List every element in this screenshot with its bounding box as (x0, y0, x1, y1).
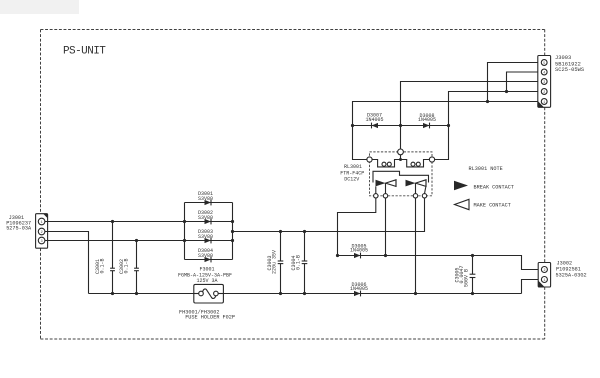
RL3001 contact 1 leads (376, 183, 386, 194)
legend make contact symbol (455, 199, 470, 209)
D3008 label (418, 113, 436, 123)
svg-text:5: 5 (543, 62, 545, 66)
F3001 label (178, 266, 232, 284)
J3001 pin 3 number (41, 240, 43, 244)
RL3001 contact 2 leads (416, 183, 426, 194)
J3002 label (556, 260, 587, 278)
frame bottom border (41, 338, 545, 340)
svg-text:125V 3A: 125V 3A (196, 278, 217, 284)
diode D3002 (185, 219, 233, 225)
D3001 label (198, 191, 213, 202)
D3005 label (350, 244, 368, 254)
wire relay pin C down to neutral rail (415, 198, 417, 294)
diode D3006 (354, 291, 361, 297)
svg-text:1N4005: 1N4005 (365, 117, 383, 123)
svg-text:1N4005: 1N4005 (418, 117, 436, 123)
relay RL3001 dashed outline (370, 152, 433, 196)
wire D3005 line to J3002 pin2 (338, 256, 542, 270)
legend make contact text (474, 203, 511, 209)
J3002 pin 1 number (543, 279, 545, 283)
junction C3001 bottom (111, 292, 114, 295)
title PS-UNIT (63, 46, 106, 58)
svg-text:2: 2 (543, 91, 545, 95)
fuse F3001 (194, 284, 224, 303)
diode D3003 (185, 238, 233, 244)
wire relay pin A to D3005 anode (338, 198, 376, 256)
svg-text:1N4005: 1N4005 (350, 248, 368, 254)
C3005 label (455, 265, 470, 287)
svg-text:PS-UNIT: PS-UNIT (63, 46, 106, 58)
RL3001 contact 2 break (406, 179, 427, 186)
junction ladder right rail D3003 (231, 239, 234, 242)
svg-text:P1092581: P1092581 (556, 266, 581, 272)
diode D3007 (353, 123, 401, 129)
svg-text:J3003: J3003 (555, 55, 571, 61)
junction coil center tap (399, 155, 402, 162)
C3001 label (95, 258, 106, 274)
wire J3003 pin5 branch (488, 63, 542, 102)
svg-text:S3V80: S3V80 (198, 215, 213, 221)
junction pin4 branch on pin2 wire (505, 90, 508, 93)
RL3001 coil pin right (429, 157, 434, 162)
junction D3008 right (447, 124, 450, 127)
C3003 label (267, 250, 278, 274)
D3003 label (198, 229, 213, 240)
svg-text:SC25-05WS: SC25-05WS (555, 67, 584, 73)
svg-text:500V B: 500V B (464, 269, 470, 287)
J3003 pin 4 number (543, 71, 545, 75)
diode ladder right rail (232, 203, 234, 260)
capacitor C3004 (302, 232, 308, 294)
junction C3004 bottom (303, 292, 306, 295)
junction C3002 top (135, 239, 138, 242)
wire neutral rail to J3002 pin1 (522, 280, 542, 294)
RL3001 armature linkage (373, 171, 429, 182)
RL3001 contact pin B (383, 194, 387, 198)
capacitor C3005 (470, 256, 476, 294)
svg-text:1: 1 (543, 101, 545, 105)
svg-text:RL3001 NOTE: RL3001 NOTE (469, 166, 503, 172)
D3006 label (350, 282, 368, 292)
capacitor C3003 (278, 232, 284, 294)
svg-text:220u 35V: 220u 35V (272, 250, 278, 274)
junction D3005 anode corner (336, 254, 339, 257)
J3001 pin 1 number (41, 221, 43, 225)
svg-text:0.1-B: 0.1-B (124, 258, 130, 273)
D3007 label (365, 113, 383, 124)
frame top border (41, 29, 545, 31)
junction C3005 bottom (471, 292, 474, 295)
legend break contact text (474, 184, 514, 190)
wire J3001 pin1 to diode ladder (AC live) (45, 221, 185, 223)
svg-text:DC12V: DC12V (344, 177, 359, 183)
D3004 label (198, 248, 213, 259)
svg-text:MAKE CONTACT: MAKE CONTACT (474, 203, 511, 209)
junction C3004 top (303, 230, 306, 233)
svg-text:2: 2 (41, 231, 43, 235)
J3001 pin 2 number (41, 231, 43, 235)
junction pin C on neutral rail (414, 292, 417, 295)
RL3001 contact 1 break (376, 179, 397, 186)
J3003 pin 1 number (543, 101, 545, 105)
J3003 label (555, 55, 584, 73)
J3002 pin 2 number (543, 269, 545, 273)
junction pin B on D3005 line (384, 254, 387, 257)
junction ladder left rail top wire (183, 220, 186, 223)
neutral rail bottom (89, 293, 522, 295)
junction pin5 branch on pin1 wire (486, 100, 489, 103)
wire J3001 pin2 down to neutral rail (45, 232, 89, 294)
svg-text:1N4005: 1N4005 (350, 286, 368, 292)
connector J3003 (538, 56, 551, 108)
svg-text:BREAK CONTACT: BREAK CONTACT (474, 184, 514, 190)
diode D3008 (401, 123, 449, 129)
capacitor C3001 (110, 222, 115, 294)
junction C3005 top (471, 254, 474, 257)
svg-text:S3V80: S3V80 (198, 196, 213, 202)
J3001 label (6, 215, 32, 232)
RL3001 contact pin D (422, 194, 426, 198)
svg-text:FTR-F4CP: FTR-F4CP (340, 170, 364, 176)
J3003 pin 3 number (543, 81, 545, 85)
connector J3001 (36, 214, 48, 249)
junction C3003 top (279, 230, 282, 233)
C3004 label (291, 255, 302, 271)
junction C3003 bottom (279, 292, 282, 295)
svg-text:3: 3 (543, 81, 545, 85)
svg-text:0.1-B: 0.1-B (296, 255, 302, 270)
svg-text:3: 3 (41, 240, 43, 244)
RL3001 coil (372, 160, 430, 167)
capacitor C3002 (134, 241, 139, 294)
legend break contact symbol (454, 181, 468, 191)
wire relay pin B down (385, 198, 387, 256)
junction D3007 left (351, 124, 354, 127)
RL3001 contact pin C (413, 194, 417, 198)
diode D3001 (185, 200, 233, 206)
D3002 label (198, 210, 213, 221)
frame left border (40, 30, 42, 340)
svg-text:RL3001: RL3001 (344, 164, 362, 170)
diode ladder left rail (184, 203, 186, 260)
svg-text:1: 1 (543, 279, 545, 283)
svg-text:4: 4 (543, 71, 545, 75)
svg-text:5325A-03G2: 5325A-03G2 (556, 272, 587, 278)
svg-text:S3V80: S3V80 (198, 253, 213, 259)
J3003 pin 2 number (543, 91, 545, 95)
junction ladder output tee (231, 230, 234, 233)
diode D3005 (354, 253, 361, 259)
wire J3003 pin1 to relay coil left (353, 102, 542, 160)
junction diode mid tap (399, 124, 402, 127)
svg-text:0.1-B: 0.1-B (100, 258, 106, 273)
wire J3001 pin3 to diode ladder (45, 240, 185, 242)
fuse holder label FH3001/FH3002 (179, 309, 235, 320)
frame right border (544, 30, 546, 340)
wire J3003 pin3 to relay coil center (401, 82, 542, 150)
wire J3003 pin4 branch (507, 72, 542, 92)
wire ladder output to relay contact pin D (233, 198, 425, 232)
connector J3002 (538, 263, 550, 288)
junction C3002 bottom (135, 292, 138, 295)
junction C3001 top (111, 220, 114, 223)
svg-text:2: 2 (543, 269, 545, 273)
RL3001 label (340, 164, 364, 183)
RL3001 contact pin A (374, 194, 378, 198)
diode D3004 (185, 257, 233, 263)
J3003 pin 5 number (543, 62, 545, 66)
C3002 label (119, 258, 130, 274)
RL3001 NOTE title (469, 166, 503, 172)
svg-text:FUSE HOLDER F02P: FUSE HOLDER F02P (185, 315, 235, 321)
svg-text:1: 1 (41, 221, 43, 225)
RL3001 coil pin left (367, 157, 372, 162)
junction ladder right rail D3002 (231, 220, 234, 223)
svg-text:5275-03A: 5275-03A (6, 226, 32, 232)
svg-text:S3V80: S3V80 (198, 234, 213, 240)
wire J3003 pin2 to relay coil right (435, 92, 542, 160)
RL3001 coil pin top (398, 149, 404, 155)
junction ladder left rail bottom wire (183, 239, 186, 242)
